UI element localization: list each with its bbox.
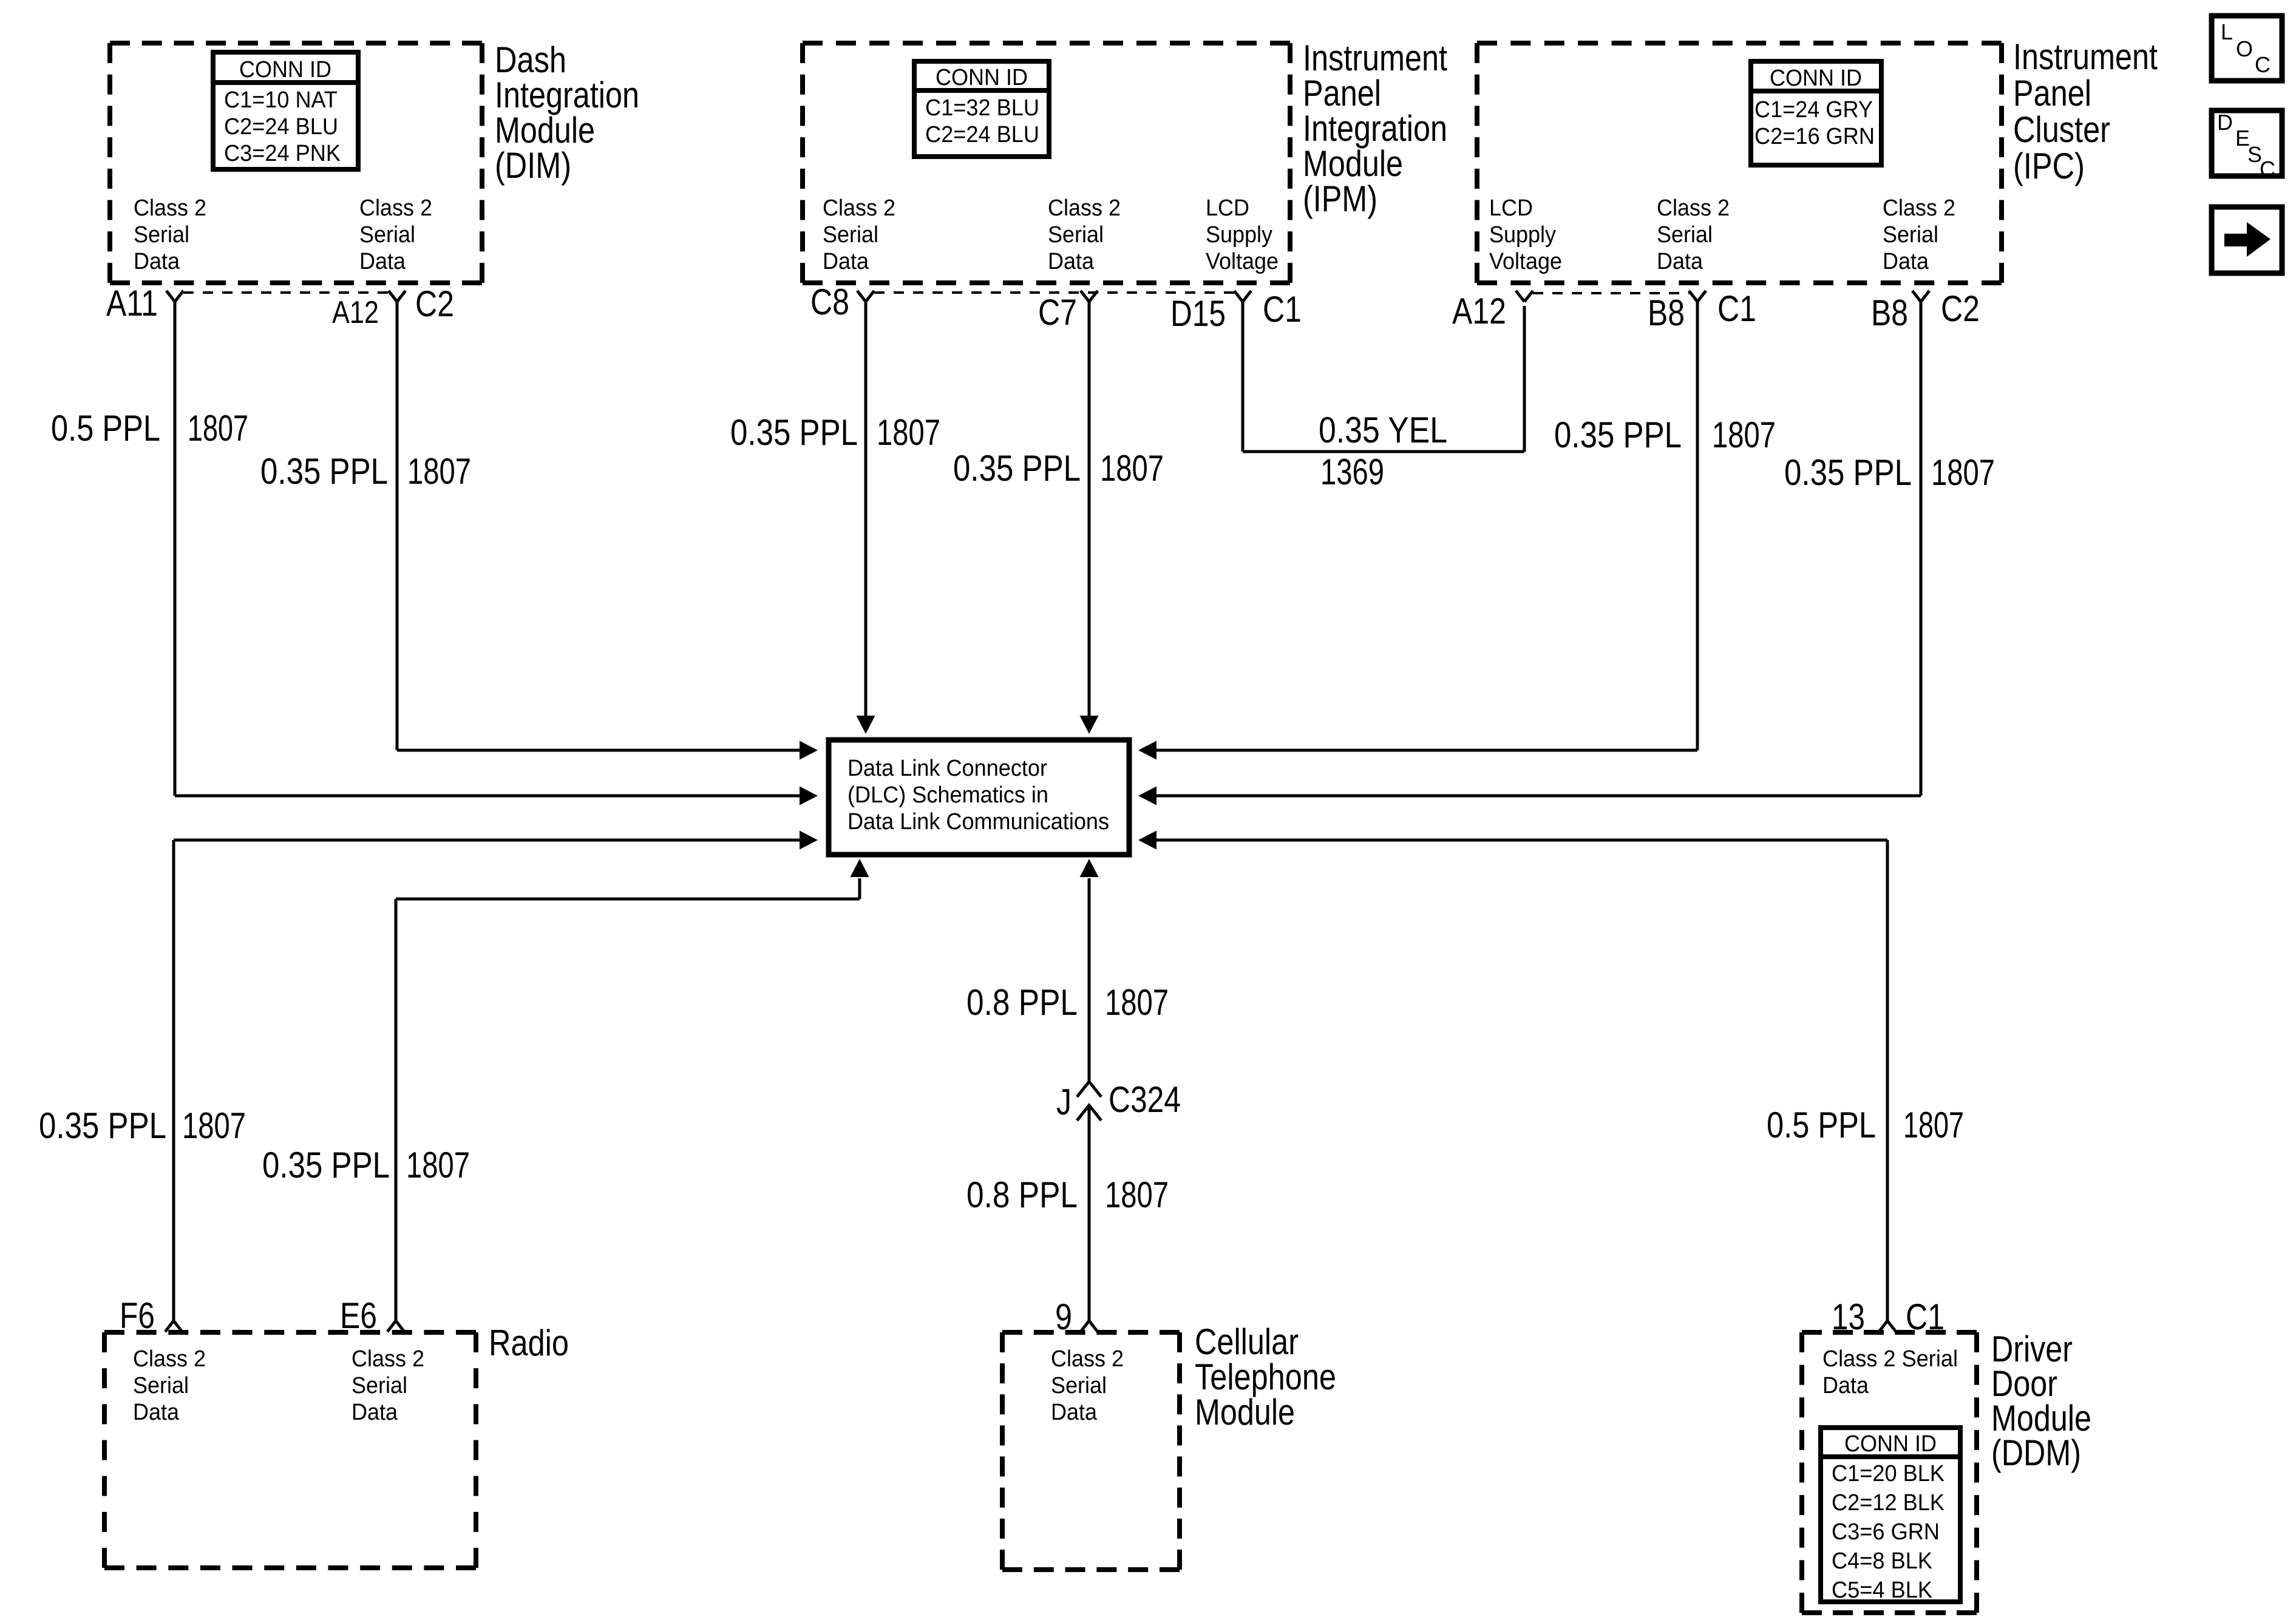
svg-text:C2: C2 <box>415 283 454 324</box>
wire: DIM A12/C2 horizontal into DLC <box>397 749 801 752</box>
svg-text:Integration: Integration <box>495 75 639 115</box>
IPC CONN ID table <box>1751 61 1881 165</box>
wire: DIM A11 riser (0.5 PPL 1807) <box>174 302 177 796</box>
wire: Radio E6 vertical into DLC bottom <box>858 878 861 899</box>
arrowhead into DLC right top <box>1138 741 1156 760</box>
svg-text:Serial: Serial <box>359 222 415 248</box>
svg-text:1807: 1807 <box>1931 452 1995 493</box>
svg-text:1807: 1807 <box>1712 415 1776 455</box>
svg-text:Data: Data <box>1822 1373 1869 1398</box>
svg-text:Supply: Supply <box>1206 222 1272 248</box>
svg-text:Class 2: Class 2 <box>1883 195 1955 221</box>
svg-text:0.8 PPL: 0.8 PPL <box>966 982 1078 1023</box>
wire: DIM A12/C2 riser (0.35 PPL 1807) <box>396 302 399 750</box>
svg-text:0.35 PPL: 0.35 PPL <box>39 1105 166 1146</box>
arrowhead into DLC right middle <box>1138 787 1156 805</box>
svg-text:Serial: Serial <box>1657 222 1713 248</box>
svg-text:L: L <box>2221 19 2233 44</box>
svg-text:B8: B8 <box>1871 293 1908 333</box>
svg-text:C3=6 GRN: C3=6 GRN <box>1832 1519 1940 1545</box>
wire: Radio F6 horizontal into DLC <box>174 839 801 842</box>
arrowhead into DLC left bottom <box>800 831 818 850</box>
IPC connector face line <box>1533 292 1689 294</box>
pin D15/C1 connector fork (IPM) <box>1234 291 1251 302</box>
svg-text:C3=24 PNK: C3=24 PNK <box>224 141 341 166</box>
pin B8/C2 connector fork (IPC) <box>1912 291 1929 302</box>
module box: Dash Integration Module (DIM) <box>110 43 482 283</box>
svg-text:Instrument: Instrument <box>1303 38 1447 78</box>
svg-text:1807: 1807 <box>406 1145 470 1185</box>
svg-text:Serial: Serial <box>133 1373 189 1398</box>
forward arrow legend icon <box>2212 207 2282 273</box>
pin A12 connector fork (IPC) <box>1516 291 1533 302</box>
svg-text:Serial: Serial <box>352 1373 407 1398</box>
svg-text:C1: C1 <box>1906 1297 1944 1337</box>
svg-text:0.35 PPL: 0.35 PPL <box>953 448 1081 489</box>
wire: IPM D15 drop (0.35 YEL 1369) <box>1241 302 1245 452</box>
svg-text:C2=12 BLK: C2=12 BLK <box>1832 1490 1944 1516</box>
svg-text:O: O <box>2236 36 2253 61</box>
svg-text:Class 2: Class 2 <box>134 195 206 221</box>
pin C7 connector fork (IPM) <box>1081 291 1098 302</box>
svg-text:0.35 PPL: 0.35 PPL <box>260 451 388 492</box>
svg-text:C2=24 BLU: C2=24 BLU <box>925 122 1039 147</box>
svg-text:Serial: Serial <box>1883 222 1938 248</box>
DESC legend icon <box>2212 110 2282 176</box>
svg-text:CONN ID: CONN ID <box>239 57 331 83</box>
svg-text:Radio: Radio <box>489 1323 569 1363</box>
svg-text:Serial: Serial <box>823 222 878 248</box>
svg-text:Class 2 Serial: Class 2 Serial <box>1822 1346 1958 1372</box>
wire: Radio E6 riser (0.35 PPL 1807) <box>395 899 398 1322</box>
svg-text:C4=8 BLK: C4=8 BLK <box>1832 1548 1932 1574</box>
svg-text:Dash: Dash <box>495 39 566 80</box>
svg-text:0.5 PPL: 0.5 PPL <box>1767 1105 1876 1145</box>
arrowhead into DLC bottom left <box>851 859 869 877</box>
wire: IPC B8/C2 drop (0.35 PPL 1807) <box>1920 302 1923 796</box>
svg-text:Data: Data <box>1657 249 1703 274</box>
svg-text:Class 2: Class 2 <box>1657 195 1730 221</box>
arrowhead into DLC top right <box>1080 716 1099 734</box>
wire: YEL 1369 horizontal D15 to A12 <box>1243 450 1524 453</box>
svg-text:1807: 1807 <box>1105 1175 1169 1215</box>
svg-text:C2=16 GRN: C2=16 GRN <box>1754 124 1875 149</box>
IPM CONN ID table <box>914 61 1049 157</box>
arrowhead into DLC left middle <box>800 787 818 805</box>
svg-text:0.35 PPL: 0.35 PPL <box>730 412 858 453</box>
wire: IPM C7 drop into DLC top <box>1088 302 1091 717</box>
svg-text:C7: C7 <box>1038 292 1077 333</box>
svg-text:C1: C1 <box>1263 289 1302 330</box>
svg-text:LCD: LCD <box>1489 195 1533 221</box>
svg-text:1369: 1369 <box>1320 452 1384 492</box>
svg-text:Data Link Connector: Data Link Connector <box>847 756 1047 781</box>
svg-text:C2=24 BLU: C2=24 BLU <box>224 114 338 140</box>
wire: Radio F6 riser (0.35 PPL 1807) <box>172 840 175 1322</box>
svg-text:C1: C1 <box>1717 288 1756 329</box>
svg-text:Telephone: Telephone <box>1195 1357 1336 1397</box>
svg-text:0.8 PPL: 0.8 PPL <box>966 1175 1078 1215</box>
svg-text:Data: Data <box>823 249 869 274</box>
svg-text:F6: F6 <box>120 1295 155 1336</box>
svg-text:A12: A12 <box>1452 291 1506 331</box>
svg-text:0.35 PPL: 0.35 PPL <box>1554 415 1682 455</box>
svg-text:D15: D15 <box>1170 293 1226 334</box>
module box: Instrument Panel Integration Module (IPM) <box>803 43 1290 283</box>
module box: Radio <box>104 1332 476 1568</box>
svg-text:Cellular: Cellular <box>1195 1321 1299 1362</box>
svg-text:(DIM): (DIM) <box>495 145 571 186</box>
svg-text:J: J <box>1056 1082 1072 1122</box>
wire: IPC B8/C1 horizontal into DLC <box>1155 749 1697 752</box>
svg-text:C5=4 BLK: C5=4 BLK <box>1832 1578 1932 1603</box>
svg-text:1807: 1807 <box>407 451 471 492</box>
svg-text:B8: B8 <box>1648 293 1685 333</box>
svg-text:Module: Module <box>1195 1392 1295 1432</box>
in-line connector J / C324 (double chevron splice) <box>1077 1082 1101 1097</box>
pin C8 connector fork (IPM) <box>857 291 874 302</box>
arrowhead into DLC bottom right <box>1080 859 1099 877</box>
svg-text:1807: 1807 <box>182 1105 246 1146</box>
module box: Cellular Telephone Module <box>1002 1332 1180 1570</box>
pin B8/C1 connector fork (IPC) <box>1689 291 1706 302</box>
svg-text:Data Link Communications: Data Link Communications <box>847 809 1109 835</box>
wire: IPM C8 drop into DLC top <box>864 302 868 717</box>
pin 9 connector fork (Cellular) <box>1081 1321 1098 1332</box>
svg-text:0.5 PPL: 0.5 PPL <box>51 408 160 449</box>
svg-text:1807: 1807 <box>1903 1105 1964 1145</box>
svg-text:C1=24 GRY: C1=24 GRY <box>1754 97 1873 123</box>
svg-text:Cluster: Cluster <box>2013 109 2110 150</box>
arrowhead into DLC top left <box>857 716 875 734</box>
IPM connector face line <box>874 291 1234 294</box>
svg-text:LCD: LCD <box>1206 195 1249 221</box>
svg-text:(IPC): (IPC) <box>2013 146 2085 186</box>
wire: DDM horizontal into DLC <box>1155 839 1887 842</box>
svg-text:0.35 PPL: 0.35 PPL <box>1784 452 1912 493</box>
svg-text:CONN ID: CONN ID <box>1770 66 1862 91</box>
svg-text:Data: Data <box>359 249 406 274</box>
svg-text:C324: C324 <box>1109 1079 1181 1120</box>
svg-text:Data: Data <box>352 1400 398 1425</box>
pin E6 connector fork (Radio) <box>387 1321 404 1332</box>
svg-text:Serial: Serial <box>134 222 189 248</box>
wire: Cellular 0.8 PPL lower segment <box>1088 1107 1091 1322</box>
svg-text:Class 2: Class 2 <box>359 195 432 221</box>
Data Link Connector (DLC) reference box <box>829 740 1129 855</box>
svg-text:CONN ID: CONN ID <box>936 65 1028 90</box>
svg-text:Module: Module <box>1303 143 1403 184</box>
svg-text:Data: Data <box>1048 249 1095 274</box>
wire: IPC B8/C2 horizontal into DLC <box>1155 795 1921 798</box>
pin F6 connector fork (Radio) <box>165 1321 182 1332</box>
LOC legend icon <box>2212 16 2282 81</box>
svg-text:Data: Data <box>134 249 180 274</box>
svg-text:Class 2: Class 2 <box>1051 1346 1124 1372</box>
svg-text:0.35 YEL: 0.35 YEL <box>1319 410 1447 450</box>
svg-text:C8: C8 <box>810 282 849 322</box>
svg-text:C1=20 BLK: C1=20 BLK <box>1832 1461 1944 1486</box>
svg-text:C1=32 BLU: C1=32 BLU <box>925 95 1039 121</box>
svg-text:1807: 1807 <box>877 412 940 453</box>
DIM CONN ID table <box>213 52 358 169</box>
svg-text:(DLC) Schematics in: (DLC) Schematics in <box>847 782 1048 808</box>
svg-text:Voltage: Voltage <box>1489 249 1562 274</box>
svg-text:A12: A12 <box>332 295 379 330</box>
module box: Driver Door Module (DDM) <box>1802 1332 1977 1613</box>
svg-text:Module: Module <box>495 110 595 151</box>
svg-text:Supply: Supply <box>1489 222 1556 248</box>
svg-text:0.35 PPL: 0.35 PPL <box>262 1145 390 1185</box>
arrowhead into DLC right bottom <box>1138 831 1156 850</box>
wire: Radio E6 horizontal <box>396 898 860 901</box>
pin A11 connector fork (DIM) <box>166 291 183 302</box>
DIM connector face line <box>183 291 389 294</box>
wire: Cellular 0.8 PPL upper segment <box>1088 878 1091 1081</box>
svg-text:(IPM): (IPM) <box>1303 178 1377 219</box>
svg-text:C: C <box>2255 52 2271 77</box>
wire: DDM riser (0.5 PPL 1807) <box>1886 840 1889 1322</box>
svg-text:A11: A11 <box>106 283 158 324</box>
svg-text:Serial: Serial <box>1051 1373 1107 1398</box>
svg-text:Voltage: Voltage <box>1206 249 1279 274</box>
wire: IPC A12 riser <box>1523 306 1526 452</box>
module box: Instrument Panel Cluster (IPC) <box>1477 43 2002 283</box>
svg-text:Class 2: Class 2 <box>352 1346 424 1372</box>
svg-text:C1=10 NAT: C1=10 NAT <box>224 87 338 113</box>
svg-text:Class 2: Class 2 <box>1048 195 1121 221</box>
svg-text:Class 2: Class 2 <box>823 195 895 221</box>
pin A12/C2 connector fork (DIM) <box>389 291 406 302</box>
svg-text:(DDM): (DDM) <box>1991 1432 2081 1473</box>
svg-text:C2: C2 <box>1941 288 1980 329</box>
svg-text:E6: E6 <box>340 1295 377 1336</box>
svg-text:D: D <box>2217 110 2233 135</box>
arrowhead into DLC left top <box>800 741 818 760</box>
svg-text:CONN ID: CONN ID <box>1844 1431 1937 1457</box>
svg-text:13: 13 <box>1832 1297 1865 1337</box>
svg-text:Data: Data <box>133 1400 180 1425</box>
wire: IPC B8/C1 drop (0.35 PPL 1807) <box>1696 302 1699 750</box>
svg-text:Class 2: Class 2 <box>133 1346 206 1372</box>
svg-text:Data: Data <box>1883 249 1929 274</box>
DDM CONN ID table <box>1821 1428 1960 1602</box>
svg-text:Instrument: Instrument <box>2013 36 2158 77</box>
svg-text:Integration: Integration <box>1303 108 1447 149</box>
pin 13/C1 connector fork (DDM) <box>1879 1321 1896 1332</box>
svg-text:9: 9 <box>1055 1297 1072 1337</box>
svg-text:Data: Data <box>1051 1400 1098 1425</box>
svg-text:1807: 1807 <box>1100 448 1164 489</box>
svg-text:1807: 1807 <box>188 408 248 449</box>
svg-text:Panel: Panel <box>2013 73 2091 114</box>
svg-text:1807: 1807 <box>1105 982 1169 1023</box>
svg-text:Serial: Serial <box>1048 222 1104 248</box>
svg-text:Panel: Panel <box>1303 73 1381 114</box>
svg-text:C: C <box>2260 157 2275 181</box>
wire: DIM A11 horizontal into DLC <box>175 795 801 798</box>
